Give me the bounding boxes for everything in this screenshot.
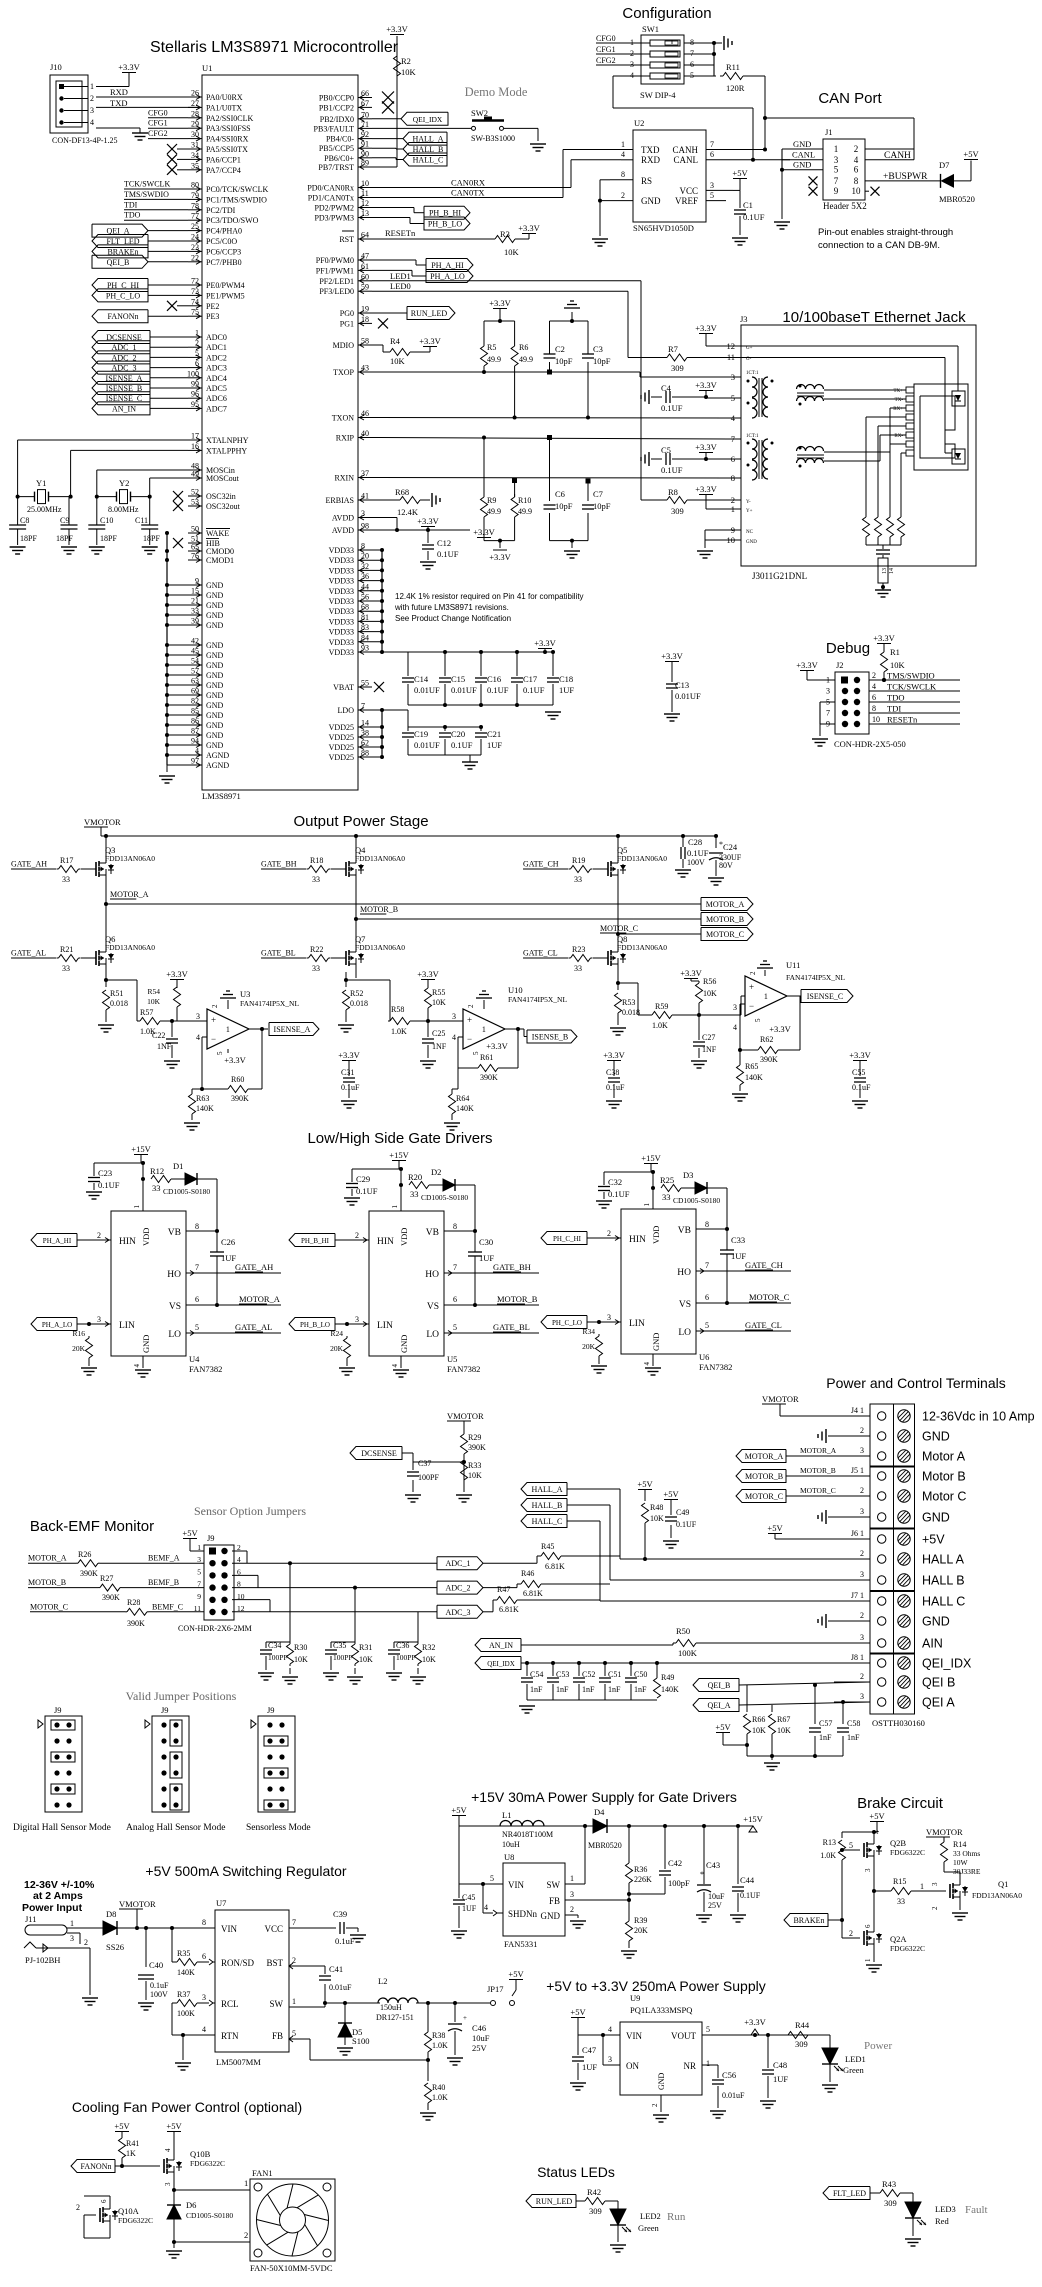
svg-text:GATE_AL: GATE_AL <box>11 949 46 958</box>
svg-text:Power and Control Terminals: Power and Control Terminals <box>826 1375 1006 1391</box>
svg-text:U9: U9 <box>630 1993 640 2003</box>
svg-text:PH_A_LO: PH_A_LO <box>430 272 465 281</box>
svg-text:309: 309 <box>671 363 684 373</box>
svg-text:MOTOR_B: MOTOR_B <box>745 1472 783 1481</box>
svg-text:VMOTOR: VMOTOR <box>119 1899 156 1909</box>
svg-text:R27: R27 <box>100 1574 113 1583</box>
svg-text:MBR0520: MBR0520 <box>588 1841 622 1850</box>
svg-text:AIN: AIN <box>922 1637 943 1651</box>
svg-text:+5V: +5V <box>114 2121 130 2131</box>
svg-text:9: 9 <box>197 1592 201 1601</box>
svg-text:R14: R14 <box>953 1840 966 1849</box>
svg-text:QEI B: QEI B <box>922 1676 955 1690</box>
svg-text:R48: R48 <box>650 1503 663 1512</box>
svg-text:10: 10 <box>361 179 369 188</box>
svg-text:94: 94 <box>191 737 199 746</box>
svg-text:C52: C52 <box>582 1670 595 1679</box>
svg-text:R57: R57 <box>140 1008 153 1017</box>
svg-text:83: 83 <box>361 623 369 632</box>
svg-text:HALL_C: HALL_C <box>532 1517 563 1526</box>
svg-text:J3011G21DNL: J3011G21DNL <box>752 571 807 581</box>
svg-text:0.1UF: 0.1UF <box>743 212 765 222</box>
svg-text:C40: C40 <box>149 1960 163 1970</box>
svg-text:150uH: 150uH <box>380 2003 402 2012</box>
svg-text:5: 5 <box>197 1567 201 1576</box>
svg-text:81: 81 <box>361 613 369 622</box>
svg-text:SW-B3S1000: SW-B3S1000 <box>471 134 515 143</box>
svg-text:U4: U4 <box>189 1354 200 1364</box>
svg-text:GND: GND <box>206 621 224 630</box>
svg-text:R8: R8 <box>668 487 678 497</box>
svg-text:39: 39 <box>191 617 199 626</box>
svg-text:100PF: 100PF <box>418 1473 439 1482</box>
svg-text:MBR0520: MBR0520 <box>939 194 975 204</box>
svg-text:LED1: LED1 <box>845 2054 866 2064</box>
svg-text:FDG6322C: FDG6322C <box>190 2159 225 2168</box>
svg-text:R66: R66 <box>752 1715 765 1724</box>
svg-text:HALL B: HALL B <box>922 1574 965 1588</box>
svg-text:D1: D1 <box>173 1161 183 1171</box>
svg-text:VMOTOR: VMOTOR <box>84 817 121 827</box>
svg-text:R61: R61 <box>480 1053 493 1062</box>
svg-text:0.01UF: 0.01UF <box>451 685 477 695</box>
svg-text:GND: GND <box>206 701 224 710</box>
svg-text:59: 59 <box>361 283 369 292</box>
svg-text:PD1/CAN0Tx: PD1/CAN0Tx <box>308 194 354 203</box>
svg-text:95: 95 <box>191 400 199 409</box>
svg-text:1nF: 1nF <box>530 1685 543 1694</box>
svg-text:GND: GND <box>206 741 224 750</box>
svg-text:RESETn: RESETn <box>385 228 416 238</box>
svg-text:14: 14 <box>361 719 369 728</box>
svg-text:15: 15 <box>191 587 199 596</box>
svg-text:VDD33: VDD33 <box>329 556 354 565</box>
svg-text:10K: 10K <box>504 247 520 257</box>
svg-text:55: 55 <box>361 679 369 688</box>
svg-text:5: 5 <box>710 191 714 200</box>
svg-text:5: 5 <box>706 2025 710 2034</box>
svg-text:GND: GND <box>922 1615 950 1629</box>
svg-text:PG1: PG1 <box>340 319 354 328</box>
svg-text:PC7/PHB0: PC7/PHB0 <box>206 258 242 267</box>
svg-text:309: 309 <box>884 2198 897 2208</box>
svg-text:C4: C4 <box>661 383 672 393</box>
svg-text:140K: 140K <box>745 1073 763 1082</box>
svg-text:5: 5 <box>472 1051 480 1055</box>
svg-text:PC4/PHA0: PC4/PHA0 <box>206 227 242 236</box>
svg-text:7: 7 <box>710 140 714 149</box>
svg-text:+3.3V: +3.3V <box>849 1050 871 1060</box>
svg-text:SW1: SW1 <box>642 24 659 34</box>
svg-text:FDG6322C: FDG6322C <box>118 2216 153 2225</box>
svg-text:R42: R42 <box>587 2187 601 2197</box>
svg-text:45: 45 <box>191 647 199 656</box>
svg-text:NC: NC <box>746 530 754 535</box>
svg-text:CFG1: CFG1 <box>148 119 168 128</box>
svg-text:+5V: +5V <box>922 1533 945 1547</box>
svg-text:11: 11 <box>361 189 369 198</box>
svg-text:C23: C23 <box>98 1168 112 1178</box>
svg-text:MOTOR_A: MOTOR_A <box>239 1294 281 1304</box>
svg-text:100V: 100V <box>687 858 705 867</box>
svg-text:390K: 390K <box>760 1055 778 1064</box>
svg-text:FAN4174IP5X_NL: FAN4174IP5X_NL <box>240 999 299 1008</box>
svg-text:VCC: VCC <box>264 1924 283 1934</box>
svg-text:3: 3 <box>164 2182 172 2186</box>
svg-text:J3: J3 <box>740 314 748 324</box>
svg-text:C28: C28 <box>688 837 702 847</box>
svg-text:2: 2 <box>84 1938 88 1947</box>
svg-text:J2: J2 <box>836 660 844 670</box>
svg-text:R13: R13 <box>823 1838 836 1847</box>
svg-text:VOUT: VOUT <box>671 2031 696 2041</box>
svg-text:6: 6 <box>195 1295 199 1304</box>
svg-text:QEI_B: QEI_B <box>708 1681 731 1690</box>
svg-text:PB4/C0-: PB4/C0- <box>326 135 354 144</box>
svg-text:100: 100 <box>187 369 199 378</box>
svg-text:TMS/SWDIO: TMS/SWDIO <box>887 671 935 681</box>
svg-text:3: 3 <box>202 1993 206 2002</box>
svg-text:VDD25: VDD25 <box>329 723 354 732</box>
svg-text:R21: R21 <box>60 945 73 954</box>
svg-text:Brake Circuit: Brake Circuit <box>857 1795 944 1812</box>
svg-text:25V: 25V <box>472 2043 488 2053</box>
svg-text:0.1UF: 0.1UF <box>687 848 709 858</box>
svg-text:C54: C54 <box>530 1670 543 1679</box>
svg-text:3: 3 <box>860 1507 864 1516</box>
svg-text:PJ-102BH: PJ-102BH <box>25 1955 60 1965</box>
svg-text:R50: R50 <box>676 1626 690 1636</box>
svg-text:+: + <box>463 2014 467 2022</box>
svg-text:+3.3V: +3.3V <box>338 1050 360 1060</box>
svg-text:2: 2 <box>749 971 757 975</box>
svg-text:140K: 140K <box>196 1104 214 1113</box>
svg-text:XTALPPHY: XTALPPHY <box>206 446 247 455</box>
svg-text:56: 56 <box>361 593 369 602</box>
svg-text:R23: R23 <box>572 945 585 954</box>
svg-text:47: 47 <box>361 252 369 261</box>
svg-text:PD2/PWM2: PD2/PWM2 <box>314 204 354 213</box>
svg-text:L1: L1 <box>502 1810 511 1820</box>
svg-text:MOTOR_C: MOTOR_C <box>745 1492 783 1501</box>
svg-text:L2: L2 <box>378 1976 387 1986</box>
svg-text:R64: R64 <box>456 1094 469 1103</box>
svg-text:PB7/TRST: PB7/TRST <box>318 163 354 172</box>
svg-text:7: 7 <box>195 1263 199 1272</box>
svg-text:4: 4 <box>164 2148 172 2152</box>
svg-text:VMOTOR: VMOTOR <box>762 1394 799 1404</box>
svg-text:Sensorless Mode: Sensorless Mode <box>246 1823 311 1833</box>
svg-text:33: 33 <box>312 875 320 884</box>
svg-text:1: 1 <box>244 2178 248 2188</box>
svg-text:20: 20 <box>361 552 369 561</box>
svg-text:−: − <box>467 1034 472 1044</box>
svg-text:CAN0RX: CAN0RX <box>451 178 485 188</box>
svg-text:93: 93 <box>361 644 369 653</box>
svg-text:RXD: RXD <box>110 87 128 97</box>
svg-text:33: 33 <box>662 1192 671 1202</box>
svg-text:Configuration: Configuration <box>622 5 711 22</box>
svg-text:R1: R1 <box>890 647 900 657</box>
svg-text:+15V: +15V <box>389 1150 409 1160</box>
svg-text:57: 57 <box>191 667 199 676</box>
svg-text:*: * <box>700 1870 704 1879</box>
svg-text:Valid Jumper Positions: Valid Jumper Positions <box>126 1689 237 1703</box>
svg-text:87: 87 <box>191 727 199 736</box>
svg-text:VDD: VDD <box>651 1226 661 1244</box>
svg-text:HALL_A: HALL_A <box>531 1485 562 1494</box>
svg-text:3: 3 <box>97 1315 101 1324</box>
svg-text:HALL C: HALL C <box>922 1595 965 1609</box>
svg-text:0.1UF: 0.1UF <box>451 740 473 750</box>
svg-text:1NF: 1NF <box>702 1045 717 1054</box>
svg-text:BST: BST <box>266 1958 283 1968</box>
svg-text:5: 5 <box>490 1874 494 1883</box>
svg-text:VDD33: VDD33 <box>329 607 354 616</box>
svg-text:33: 33 <box>152 1183 161 1193</box>
svg-text:32: 32 <box>361 562 369 571</box>
svg-text:C6: C6 <box>555 489 565 499</box>
svg-text:+: + <box>749 982 754 992</box>
svg-text:D3: D3 <box>683 1170 693 1180</box>
svg-text:D6: D6 <box>186 2200 196 2210</box>
svg-text:65: 65 <box>191 543 199 552</box>
svg-text:VREF: VREF <box>675 196 698 206</box>
svg-text:PD0/CAN0Rx: PD0/CAN0Rx <box>307 184 354 193</box>
svg-text:10K: 10K <box>390 356 406 366</box>
svg-text:85: 85 <box>191 707 199 716</box>
svg-text:78: 78 <box>191 201 199 210</box>
svg-text:0.1UF: 0.1UF <box>356 1186 378 1196</box>
svg-text:89: 89 <box>361 159 369 168</box>
svg-text:MOTOR_B: MOTOR_B <box>706 915 744 924</box>
svg-text:+5V: +5V <box>182 1528 198 1538</box>
svg-text:DCSENSE: DCSENSE <box>361 1449 397 1458</box>
svg-text:Green: Green <box>843 2065 865 2075</box>
svg-text:C5: C5 <box>661 445 671 455</box>
svg-text:PA1/U0TX: PA1/U0TX <box>206 103 242 112</box>
svg-text:1: 1 <box>133 1205 141 1209</box>
svg-text:24: 24 <box>191 233 199 242</box>
svg-text:16: 16 <box>191 442 199 451</box>
svg-text:49.9: 49.9 <box>487 507 501 516</box>
svg-text:1: 1 <box>90 82 94 91</box>
svg-text:10pF: 10pF <box>555 356 573 366</box>
svg-text:8: 8 <box>202 1918 206 1927</box>
svg-text:0.1UF: 0.1UF <box>523 685 545 695</box>
svg-text:71: 71 <box>361 120 369 129</box>
svg-text:TXOP: TXOP <box>333 368 354 377</box>
svg-text:Y2: Y2 <box>119 478 129 488</box>
svg-text:21: 21 <box>191 597 199 606</box>
svg-text:R26: R26 <box>78 1550 91 1559</box>
svg-text:+3.3V: +3.3V <box>224 1055 246 1065</box>
svg-text:14: 14 <box>889 568 895 574</box>
svg-text:GND: GND <box>206 601 224 610</box>
svg-text:HIN: HIN <box>119 1237 136 1247</box>
svg-text:100PF: 100PF <box>396 1653 416 1662</box>
svg-text:8: 8 <box>705 1220 709 1229</box>
svg-text:309: 309 <box>671 506 684 516</box>
svg-text:R46: R46 <box>521 1569 534 1578</box>
svg-text:8: 8 <box>872 704 876 713</box>
svg-text:18PF: 18PF <box>56 534 73 543</box>
svg-text:0.1UF: 0.1UF <box>661 403 683 413</box>
svg-text:1: 1 <box>482 1025 486 1034</box>
svg-text:FAN-50X10MM-5VDC: FAN-50X10MM-5VDC <box>250 2263 333 2273</box>
svg-text:1nF: 1nF <box>556 1685 569 1694</box>
svg-text:PE3: PE3 <box>206 312 219 321</box>
svg-text:S100: S100 <box>352 2036 369 2046</box>
svg-text:J9: J9 <box>161 1705 169 1715</box>
svg-text:0.01UF: 0.01UF <box>414 740 440 750</box>
svg-text:GATE_BL: GATE_BL <box>493 1322 530 1332</box>
svg-text:Demo Mode: Demo Mode <box>465 85 528 99</box>
svg-text:CAN Port: CAN Port <box>818 90 882 107</box>
svg-text:1: 1 <box>292 1997 296 2006</box>
svg-text:10W: 10W <box>953 1858 969 1867</box>
svg-text:U6: U6 <box>699 1352 709 1362</box>
svg-text:CANH: CANH <box>672 145 698 155</box>
svg-text:GATE_CH: GATE_CH <box>523 860 559 869</box>
svg-text:ON: ON <box>626 2061 639 2071</box>
svg-text:33: 33 <box>897 1897 905 1906</box>
svg-text:10K: 10K <box>703 989 717 998</box>
svg-text:Y-: Y- <box>746 500 751 505</box>
svg-text:2: 2 <box>931 1906 939 1910</box>
svg-text:D4: D4 <box>594 1807 605 1817</box>
svg-text:1: 1 <box>70 1919 74 1928</box>
svg-text:Power: Power <box>864 2040 892 2052</box>
svg-text:13: 13 <box>882 568 888 574</box>
svg-text:3: 3 <box>710 181 714 190</box>
svg-text:PC2/TDI: PC2/TDI <box>206 206 236 215</box>
svg-text:HALL_B: HALL_B <box>532 1501 563 1510</box>
svg-text:1: 1 <box>391 1205 399 1209</box>
svg-text:C46: C46 <box>472 2023 486 2033</box>
svg-text:4: 4 <box>643 1362 651 1366</box>
svg-text:CFG0: CFG0 <box>596 34 616 43</box>
svg-text:VDD33: VDD33 <box>329 566 354 575</box>
svg-text:PF3/LED0: PF3/LED0 <box>319 287 354 296</box>
svg-text:C29: C29 <box>356 1174 370 1184</box>
svg-text:0.1UF: 0.1UF <box>487 685 509 695</box>
svg-text:3: 3 <box>860 1692 864 1701</box>
svg-text:Q10A: Q10A <box>118 2206 140 2216</box>
svg-text:MOTOR_B: MOTOR_B <box>800 1466 836 1475</box>
svg-text:10pF: 10pF <box>593 501 611 511</box>
svg-text:Q2B: Q2B <box>890 1838 906 1848</box>
svg-text:MOTOR_A: MOTOR_A <box>28 1554 67 1563</box>
svg-text:73: 73 <box>191 287 199 296</box>
svg-text:98: 98 <box>361 522 369 531</box>
svg-text:AGND: AGND <box>206 751 229 760</box>
svg-text:C19: C19 <box>414 729 428 739</box>
svg-text:Power Input: Power Input <box>22 1902 83 1914</box>
svg-text:+3.3V: +3.3V <box>489 298 511 308</box>
svg-text:12-36Vdc in 10 Amp: 12-36Vdc in 10 Amp <box>922 1410 1035 1424</box>
svg-text:10K: 10K <box>147 997 161 1006</box>
svg-text:R51: R51 <box>110 989 123 998</box>
svg-text:76: 76 <box>191 552 199 561</box>
svg-text:6: 6 <box>453 1295 457 1304</box>
svg-text:FDD13AN06A0: FDD13AN06A0 <box>355 943 405 952</box>
svg-text:BEMF_B: BEMF_B <box>148 1578 179 1587</box>
svg-text:33: 33 <box>62 875 70 884</box>
svg-text:1NF: 1NF <box>157 1042 172 1051</box>
svg-text:TXD: TXD <box>110 98 127 108</box>
svg-text:MOTOR_C: MOTOR_C <box>30 1602 68 1611</box>
svg-text:3: 3 <box>90 106 94 115</box>
svg-text:PH_C_LO: PH_C_LO <box>106 291 140 300</box>
svg-text:ADC6: ADC6 <box>206 394 227 403</box>
svg-text:Low/High Side Gate Drivers: Low/High Side Gate Drivers <box>307 1130 492 1147</box>
svg-text:SS26: SS26 <box>106 1942 124 1952</box>
svg-text:0.1uF: 0.1uF <box>150 1981 169 1990</box>
svg-text:CFG2: CFG2 <box>148 129 168 138</box>
svg-text:QEI_IDX: QEI_IDX <box>487 1660 515 1668</box>
svg-text:100K: 100K <box>177 2009 195 2018</box>
svg-text:2: 2 <box>872 671 876 680</box>
svg-text:BEMF_A: BEMF_A <box>148 1554 180 1563</box>
svg-text:5: 5 <box>754 1018 762 1022</box>
svg-text:VB: VB <box>426 1228 439 1238</box>
svg-text:99: 99 <box>191 380 199 389</box>
svg-text:C14: C14 <box>414 674 429 684</box>
svg-text:R35: R35 <box>177 1949 190 1958</box>
svg-text:7: 7 <box>705 1261 709 1270</box>
svg-text:33: 33 <box>574 964 582 973</box>
svg-text:18PF: 18PF <box>143 534 160 543</box>
svg-text:8.00MHz: 8.00MHz <box>108 505 139 514</box>
svg-text:U8: U8 <box>504 1852 514 1862</box>
svg-text:C33: C33 <box>731 1235 745 1245</box>
svg-text:RUN_LED: RUN_LED <box>411 309 448 318</box>
svg-text:GND: GND <box>206 691 224 700</box>
svg-text:ADC_2: ADC_2 <box>446 1584 471 1593</box>
svg-text:C47: C47 <box>582 2045 596 2055</box>
svg-text:PH_B_LO: PH_B_LO <box>300 1321 330 1329</box>
svg-text:3: 3 <box>834 155 839 165</box>
svg-text:+3.3V: +3.3V <box>744 2017 766 2027</box>
svg-text:HO: HO <box>677 1268 691 1278</box>
svg-text:PH_A_HI: PH_A_HI <box>43 1237 72 1245</box>
svg-text:12: 12 <box>361 199 369 208</box>
svg-text:+5V: +5V <box>767 1523 783 1533</box>
svg-text:CD1005-S0180: CD1005-S0180 <box>673 1196 720 1205</box>
svg-text:1: 1 <box>570 1874 574 1883</box>
svg-text:1.0K: 1.0K <box>820 1851 836 1860</box>
svg-text:C30: C30 <box>479 1237 493 1247</box>
svg-text:GND: GND <box>206 661 224 670</box>
svg-text:0.1UF: 0.1UF <box>608 1189 630 1199</box>
svg-text:GND: GND <box>206 671 224 680</box>
svg-text:DR127-151: DR127-151 <box>376 2013 414 2022</box>
svg-text:MOTOR_C: MOTOR_C <box>600 924 638 933</box>
svg-text:22: 22 <box>191 253 199 262</box>
svg-text:R59: R59 <box>655 1002 668 1011</box>
svg-text:2: 2 <box>860 1426 864 1435</box>
svg-text:FDD13AN06A0: FDD13AN06A0 <box>105 854 155 863</box>
svg-text:R55: R55 <box>432 988 445 997</box>
svg-text:3: 3 <box>607 1313 611 1322</box>
svg-text:LM5007MM: LM5007MM <box>216 2057 261 2067</box>
svg-text:R65: R65 <box>745 1062 758 1071</box>
svg-text:2: 2 <box>854 144 859 154</box>
svg-text:U7: U7 <box>216 1898 226 1908</box>
svg-text:1nF: 1nF <box>847 1733 860 1742</box>
svg-text:R36: R36 <box>634 1865 647 1874</box>
